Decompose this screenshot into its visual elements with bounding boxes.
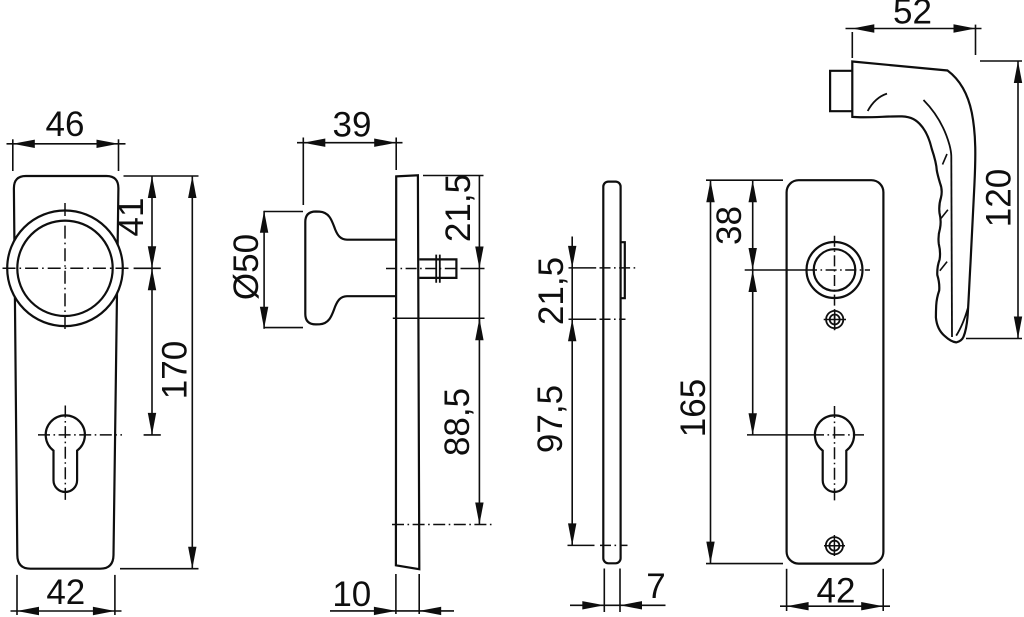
- knob vertical centerline: [64, 203, 66, 333]
- lower hole mark line: [392, 524, 495, 526]
- svg-text:21,5: 21,5: [532, 257, 571, 325]
- svg-text:41: 41: [112, 198, 151, 237]
- lever boss: [830, 71, 852, 111]
- screw 1: [826, 311, 843, 328]
- svg-text:38: 38: [710, 206, 749, 245]
- dimension 10 (plate thickness): [330, 574, 454, 614]
- lever inner front-edge line: [950, 156, 953, 337]
- clip tab: [621, 242, 625, 298]
- plate outline: [787, 180, 884, 563]
- keyhole horizontal centerline: [812, 434, 864, 436]
- dimension (hub to keyhole, unlabeled): [749, 270, 757, 292]
- svg-text:42: 42: [46, 573, 85, 612]
- keyhole (PZ profile): [46, 415, 85, 492]
- screw 2: [826, 537, 843, 554]
- dimension 52 (lever reach): [846, 25, 982, 58]
- svg-text:165: 165: [674, 379, 713, 437]
- plate outline (tapered, rounded corners): [14, 176, 119, 569]
- svg-text:97,5: 97,5: [531, 385, 570, 453]
- hub vertical centerline: [834, 236, 836, 331]
- dimension diameter 50 (knob face): [264, 211, 303, 329]
- svg-text:170: 170: [156, 341, 195, 399]
- svg-text:Ø50: Ø50: [227, 234, 266, 300]
- spindle stub: [419, 259, 456, 278]
- knob inner circle: [17, 221, 112, 316]
- lever tip inner line: [956, 308, 968, 336]
- keyhole (PZ profile): [815, 415, 854, 492]
- dimension 42 (plate width): [780, 569, 890, 611]
- hub inner circle: [814, 249, 856, 291]
- svg-text:39: 39: [333, 106, 372, 145]
- dimension 170 (plate height): [120, 176, 199, 569]
- svg-text:88,5: 88,5: [438, 388, 477, 456]
- lever crease tick 2: [941, 210, 948, 219]
- lever crease tick 3: [940, 262, 947, 271]
- keyhole vertical centerline: [64, 406, 66, 503]
- dimension 120 (lever height): [966, 61, 1022, 339]
- lever outline: [852, 62, 975, 343]
- dimension 165 (plate height): [706, 180, 783, 563]
- knob horizontal centerline: [3, 267, 133, 269]
- knob side profile: [305, 212, 396, 325]
- upper hole mark: [569, 318, 597, 320]
- svg-text:52: 52: [893, 0, 932, 32]
- lever crease tick 1: [943, 154, 948, 165]
- dimension (knob center to keyhole center, unlabeled): [148, 268, 156, 290]
- center hole mark: [569, 267, 597, 269]
- svg-text:10: 10: [332, 575, 371, 614]
- keyhole tick to dim: [747, 434, 812, 436]
- hub center tick to dim: [745, 269, 806, 271]
- dimension 21,5 / 97,5 line: [571, 237, 573, 546]
- svg-text:120: 120: [980, 169, 1019, 227]
- dimension 21,5 (side, small with outside arrows): [423, 176, 485, 341]
- dimension 42 (bottom width): [11, 575, 122, 615]
- svg-text:7: 7: [646, 567, 665, 606]
- lever neck inner arc: [868, 94, 887, 111]
- dimension 39 (knob projection): [297, 138, 403, 206]
- dimension 46 (top width): [7, 139, 126, 171]
- thin plate side profile: [603, 182, 620, 564]
- dimension 38 (top to hub center): [752, 180, 754, 435]
- lower hole mark: [568, 544, 595, 546]
- spindle centerline: [386, 268, 458, 270]
- keyhole horizontal centerline: [38, 434, 122, 436]
- svg-text:21,5: 21,5: [439, 174, 478, 242]
- dimension 41 (top to knob center): [124, 176, 199, 435]
- dimension 7 (thickness): [570, 569, 666, 613]
- keyhole vertical centerline: [834, 406, 836, 502]
- dimension 88,5: [478, 318, 480, 524]
- plate side profile: [396, 175, 419, 569]
- spindle break lines: [436, 255, 440, 283]
- lever bend inner arc: [924, 100, 952, 156]
- upper hole mark line: [393, 317, 485, 319]
- hub outer circle: [807, 242, 863, 298]
- hub horizontal centerline: [806, 269, 870, 271]
- svg-text:42: 42: [817, 572, 856, 611]
- svg-text:46: 46: [46, 105, 85, 144]
- knob outer circle: [7, 210, 123, 326]
